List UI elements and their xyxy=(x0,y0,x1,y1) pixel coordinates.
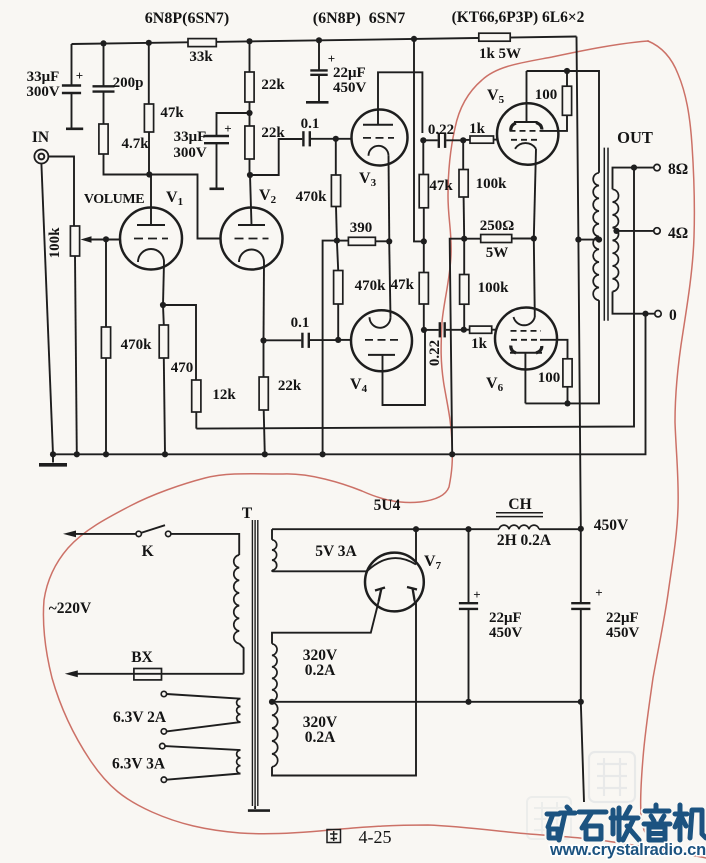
svg-text:T: T xyxy=(242,505,253,522)
wire: V6 plate to OPT bottom xyxy=(525,300,599,403)
V4 grid (dashed) xyxy=(365,339,398,341)
rectifier V7 (5U4) xyxy=(365,553,424,612)
node: B+ / 47k midpoint xyxy=(421,238,427,244)
wire: V7 left plate to 320V #1 xyxy=(272,602,379,644)
svg-text:0.2A: 0.2A xyxy=(305,662,336,679)
watermark text (site name, drawn glyphs) xyxy=(547,805,706,840)
wire: HT centre tap / negative rail xyxy=(272,701,581,703)
capacitor 33uF 300V (decoupling) xyxy=(217,113,250,136)
svg-text:5U4: 5U4 xyxy=(374,497,401,514)
wire: mains to primary xyxy=(171,534,239,555)
V2 plate xyxy=(238,224,265,226)
resistor 470k (V1 grid leak) xyxy=(105,239,107,327)
V3 grid (dashed) xyxy=(363,137,394,139)
resistor 1k 5W (B+ dropper) xyxy=(479,33,510,41)
V5 plate xyxy=(526,71,528,122)
V1 cathode xyxy=(138,249,164,262)
resistor 250R 5W (cathode bias) xyxy=(464,238,481,240)
svg-text:0.1: 0.1 xyxy=(291,315,310,331)
V2 grid (dashed) xyxy=(235,238,269,240)
winding 320V 0.2A (lower) xyxy=(272,702,278,767)
svg-text:CH: CH xyxy=(508,496,531,513)
transformer T primary xyxy=(234,555,239,644)
triode V1 xyxy=(120,208,182,270)
wire: V5 plate to OPT top xyxy=(527,71,600,173)
resistor 470k (V3 grid leak) xyxy=(335,139,337,175)
svg-text:VOLUME: VOLUME xyxy=(84,192,144,207)
wire: jack ground to rail xyxy=(41,164,53,455)
V3 plate xyxy=(363,124,393,126)
wire: bias junction to ground rail xyxy=(450,239,465,455)
V6 screen grid (dashed) xyxy=(511,339,540,341)
beam tetrode V5 (KT66/6P3P) xyxy=(497,103,558,164)
wire: V2 plate to coupling cap 0.1 xyxy=(250,139,302,175)
wire: tail to ground rail xyxy=(323,241,337,455)
svg-text:470k: 470k xyxy=(121,337,153,353)
V5 beam electrodes xyxy=(511,123,516,131)
svg-text:+: + xyxy=(473,587,480,602)
svg-text:22μF: 22μF xyxy=(606,610,639,626)
V3 grid lead xyxy=(336,138,352,140)
svg-text:OUT: OUT xyxy=(617,128,653,147)
svg-text:22k: 22k xyxy=(278,378,302,394)
potentiometer 100k (volume) xyxy=(70,226,79,256)
V5 cathode xyxy=(515,143,536,149)
triode V2 xyxy=(221,208,283,270)
wire: fuse to primary bottom xyxy=(239,644,243,674)
node: bias/ground junction xyxy=(461,236,467,242)
svg-text:12k: 12k xyxy=(212,387,236,403)
resistor 22k (V2 plate load lower) xyxy=(245,126,254,159)
svg-text:390: 390 xyxy=(350,220,373,236)
svg-text:2H 0.2A: 2H 0.2A xyxy=(497,532,552,549)
node: V3 grid junction xyxy=(333,136,339,142)
node: decoupling junction xyxy=(246,110,252,116)
T core xyxy=(251,520,253,806)
svg-text:100k: 100k xyxy=(478,280,510,296)
V5 screen lead to 100R xyxy=(541,115,568,131)
wire: OPT centre tap to B+ xyxy=(578,239,599,241)
svg-text:470k: 470k xyxy=(355,278,387,294)
ground symbol xyxy=(52,454,54,462)
svg-text:100: 100 xyxy=(538,370,561,386)
svg-text:6.3V 2A: 6.3V 2A xyxy=(113,709,167,726)
connector: IN jack xyxy=(34,150,48,164)
node: V6 grid junction xyxy=(461,327,467,333)
node: 390 left junction xyxy=(334,238,340,244)
node: plate/screen node V5 xyxy=(564,68,570,74)
freehand red annotation loop (right stroke) xyxy=(641,41,695,847)
svg-text:0.2A: 0.2A xyxy=(305,729,336,746)
wire: main ground rail xyxy=(53,314,646,455)
watermark text halo xyxy=(547,805,706,840)
svg-text:6N8P(6SN7): 6N8P(6SN7) xyxy=(145,10,229,27)
node: ground rail dots xyxy=(50,451,56,457)
svg-text:450V: 450V xyxy=(489,625,523,641)
label: figure number xyxy=(327,830,341,843)
V7 plate marks xyxy=(375,588,385,591)
svg-text:+: + xyxy=(328,51,335,66)
svg-text:33k: 33k xyxy=(189,49,213,65)
svg-text:100k: 100k xyxy=(476,176,508,192)
winding 6.3V 2A xyxy=(161,691,166,696)
capacitor 22uF 450V (filter 2) xyxy=(580,529,582,603)
node: V1 cathode junction xyxy=(160,302,166,308)
node: HT centre tap xyxy=(269,699,275,705)
svg-text:4.7k: 4.7k xyxy=(121,136,149,152)
svg-text:33μF: 33μF xyxy=(27,69,60,85)
svg-text:0.22: 0.22 xyxy=(428,122,454,138)
svg-text:33μF: 33μF xyxy=(174,129,207,145)
capacitor 200p xyxy=(103,43,105,86)
svg-text:100: 100 xyxy=(535,87,558,103)
resistor 4.7k xyxy=(99,124,108,154)
svg-text:300V: 300V xyxy=(173,145,207,161)
wire: V1 plate to V2 grid xyxy=(149,175,220,239)
svg-text:0: 0 xyxy=(669,307,677,324)
resistor 1k (V6 grid stopper) xyxy=(470,326,492,333)
svg-text:0.22: 0.22 xyxy=(427,340,443,366)
wire: feedback 8 ohm tap to 12k xyxy=(196,168,634,429)
svg-text:0.1: 0.1 xyxy=(301,116,320,132)
wire: 5V bottom to V7 filament xyxy=(272,570,368,571)
svg-text:100k: 100k xyxy=(47,227,63,259)
resistor 47k (V3 plate load) xyxy=(422,140,424,174)
wire: pot bottom to ground rail xyxy=(75,256,77,454)
resistor 470k (V4 grid leak) xyxy=(337,241,338,271)
resistor 1k (V5 grid stopper) xyxy=(463,139,470,141)
svg-text:~220V: ~220V xyxy=(49,600,92,617)
capacitor 0.22 (to V6 grid) xyxy=(424,329,439,331)
winding 6.3V 3A xyxy=(160,743,165,748)
svg-text:1k: 1k xyxy=(469,121,486,137)
V2 cathode xyxy=(239,249,264,262)
resistor 22k (V2 plate load upper) xyxy=(249,41,251,72)
svg-text:22k: 22k xyxy=(261,77,285,93)
svg-text:+: + xyxy=(224,121,231,136)
watermark ghost xyxy=(589,752,635,802)
OPT secondary 0 tap xyxy=(613,292,655,314)
node: V2 cathode junction xyxy=(260,337,266,343)
resistor 47k (V1 plate load) xyxy=(148,43,150,104)
node: cathodes / 250R junction xyxy=(531,235,537,241)
pot wiper arrow xyxy=(81,236,92,242)
resistor 470 (V1 cathode) xyxy=(162,305,165,325)
svg-text:BX: BX xyxy=(131,649,153,666)
svg-text:+: + xyxy=(595,585,602,600)
svg-text:47k: 47k xyxy=(160,105,184,121)
resistor 33k (rail decoupling) xyxy=(188,39,216,47)
capacitor 22uF 450V (B+ filter at rail) xyxy=(318,40,320,70)
svg-text:300V: 300V xyxy=(26,84,60,100)
svg-text:4-25: 4-25 xyxy=(359,827,392,847)
svg-text:47k: 47k xyxy=(429,178,453,194)
resistor 100k (V6 grid leak) xyxy=(463,239,465,275)
V6 plate xyxy=(510,352,542,354)
V6 screen lead to 100R xyxy=(540,340,568,359)
svg-text:4Ω: 4Ω xyxy=(668,225,688,242)
wire: 5V top / 450V row xyxy=(272,528,499,530)
node: V4 grid junction xyxy=(335,337,341,343)
V6 beam electrodes xyxy=(511,346,516,354)
svg-text:450V: 450V xyxy=(594,517,629,534)
winding 5V 3A xyxy=(271,529,273,540)
resistor 100k (V5 grid leak) xyxy=(462,140,464,169)
wire: negative rail stub down xyxy=(581,702,584,802)
node: plate/screen node V6 xyxy=(564,400,570,406)
resistor 12k (feedback leg) xyxy=(163,305,196,380)
triode V3 xyxy=(352,110,408,166)
capacitor 0.1 (coupling to V4) xyxy=(264,339,302,341)
svg-text:470k: 470k xyxy=(296,189,328,205)
transformer OPT secondary xyxy=(613,189,619,291)
triode V4 xyxy=(351,310,412,371)
switch K xyxy=(63,531,76,538)
resistor 100 (V5 screen) xyxy=(562,86,571,115)
V6 control grid (dashed) xyxy=(511,330,542,332)
V4 cathode (inverted, top) xyxy=(389,241,390,317)
transformer OPT primary xyxy=(593,173,599,300)
svg-text:IN: IN xyxy=(32,129,49,146)
svg-text:22μF: 22μF xyxy=(333,65,366,81)
OPT secondary 4 ohm tap xyxy=(615,230,654,232)
node: V2 plate node xyxy=(247,172,253,178)
capacitor 22uF 450V (filter 1) xyxy=(468,529,470,603)
svg-text:(KT66,6P3P) 6L6×2: (KT66,6P3P) 6L6×2 xyxy=(452,9,585,26)
resistor 390 xyxy=(337,240,349,242)
resistor 22k (V2 cathode) xyxy=(263,341,265,378)
wire: B+ top rail xyxy=(72,37,577,45)
V3 cathode xyxy=(369,146,389,156)
svg-text:8Ω: 8Ω xyxy=(668,161,688,178)
svg-text:1k 5W: 1k 5W xyxy=(479,46,521,62)
V4 plate xyxy=(368,354,395,356)
node: V1 grid junction xyxy=(103,236,109,242)
svg-text:1k: 1k xyxy=(471,336,488,352)
svg-text:200p: 200p xyxy=(113,75,144,91)
beam tetrode V6 (KT66/6P3P) xyxy=(495,308,557,370)
svg-text:www.crystalradio.cn: www.crystalradio.cn xyxy=(549,841,706,859)
svg-text:5W: 5W xyxy=(486,245,509,261)
V1 plate xyxy=(137,224,165,226)
resistor 100 (V6 screen) xyxy=(563,359,572,387)
V4 grid lead xyxy=(338,339,352,341)
V5 control grid (dashed) xyxy=(511,139,539,141)
svg-text:450V: 450V xyxy=(333,80,367,96)
wire: B+ drop to supply xyxy=(577,37,581,529)
V5 screen grid (dashed) xyxy=(510,130,541,132)
wire: V7 right plate to 320V #2 xyxy=(272,600,416,776)
node: V1 plate junction xyxy=(146,171,152,177)
node: V3 plate node (0.22 tap) xyxy=(420,137,426,143)
chassis ground at core xyxy=(254,806,256,809)
OPT secondary 8 ohm tap xyxy=(613,168,654,190)
resistor 47k (V4 plate load) xyxy=(423,241,425,272)
svg-text:470: 470 xyxy=(171,360,194,376)
winding 320V 0.2A (upper) xyxy=(272,644,277,702)
svg-text:5V 3A: 5V 3A xyxy=(315,543,357,560)
V7 filament arc xyxy=(368,558,417,571)
node: V4 plate node (0.22 tap) xyxy=(421,327,427,333)
capacitor 33uF 300V (input filter) xyxy=(71,44,73,86)
svg-text:450V: 450V xyxy=(606,625,640,641)
svg-text:K: K xyxy=(142,543,154,560)
svg-text:+: + xyxy=(76,68,83,83)
node: V5 grid junction xyxy=(460,137,466,143)
capacitor 0.1 (coupling to V3) xyxy=(302,131,304,146)
node: V3 cathode / 390 junction xyxy=(386,238,392,244)
svg-text:(6N8P) 6SN7: (6N8P) 6SN7 xyxy=(313,10,405,27)
V1 grid (dashed) xyxy=(134,238,168,240)
svg-text:6.3V 3A: 6.3V 3A xyxy=(112,756,166,773)
svg-text:47k: 47k xyxy=(391,277,415,293)
svg-text:250Ω: 250Ω xyxy=(480,218,515,234)
OPT core xyxy=(603,148,605,321)
node: rail junction dots xyxy=(100,40,106,46)
V6 cathode (inverted, top) xyxy=(534,239,535,318)
wire: B+ feed to 47k pair xyxy=(414,39,424,242)
wire: jack hot to volume pot top xyxy=(48,157,74,227)
svg-text:22μF: 22μF xyxy=(489,610,522,626)
capacitor 0.22 (to V5 grid) xyxy=(423,139,437,141)
